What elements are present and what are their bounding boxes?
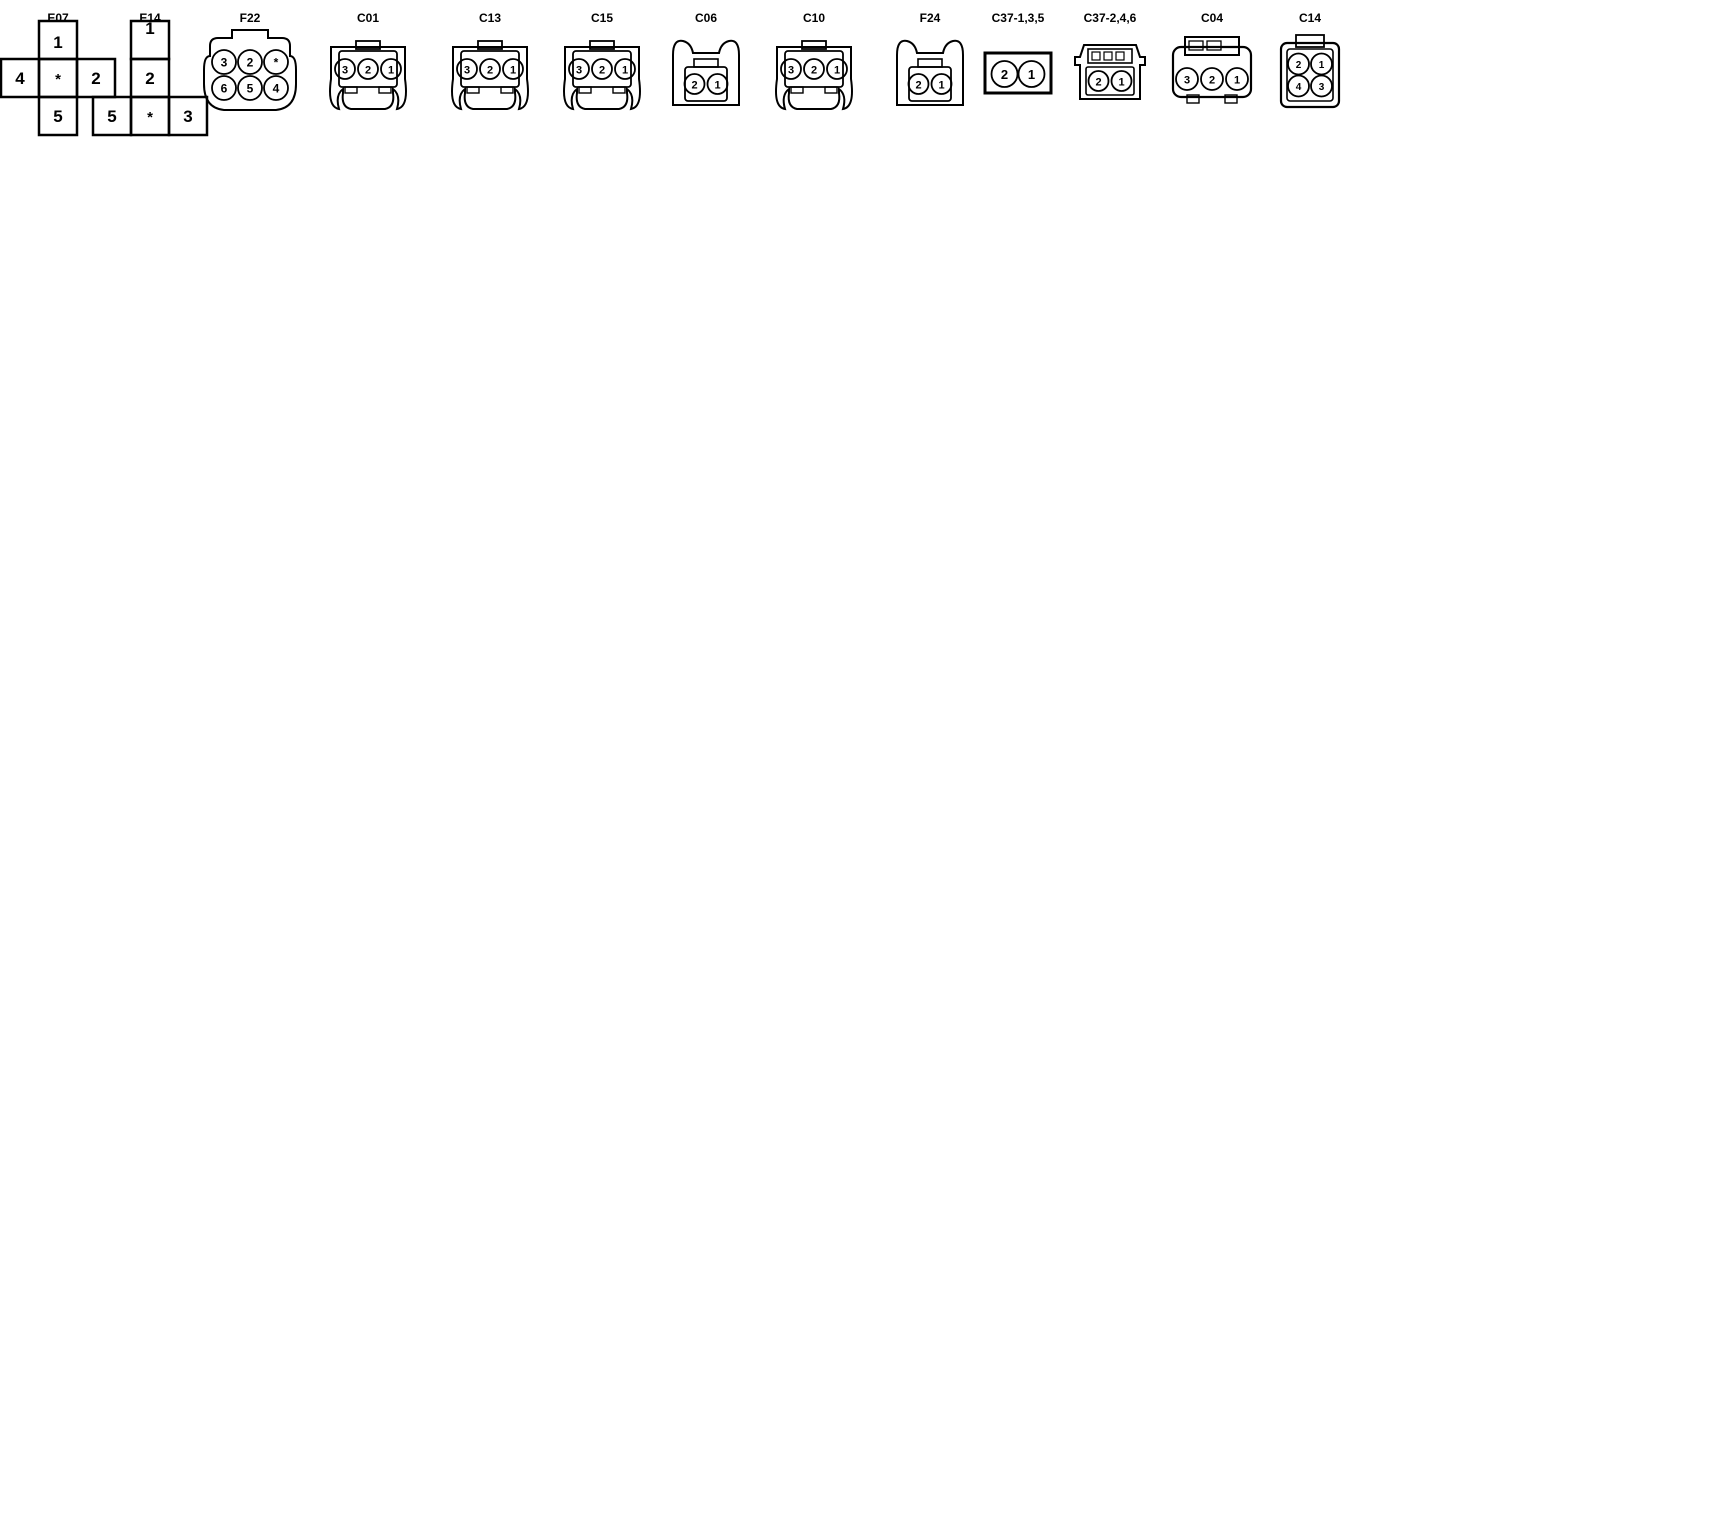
svg-text:C37-2,4,6: C37-2,4,6 xyxy=(1084,11,1137,25)
svg-text:2: 2 xyxy=(365,65,371,77)
svg-text:1: 1 xyxy=(145,19,154,38)
svg-text:2: 2 xyxy=(1209,75,1215,87)
svg-text:4: 4 xyxy=(1296,82,1302,93)
svg-text:*: * xyxy=(55,71,61,88)
svg-text:3: 3 xyxy=(576,65,582,77)
svg-text:1: 1 xyxy=(834,65,840,77)
svg-text:5: 5 xyxy=(247,82,254,96)
svg-text:1: 1 xyxy=(622,65,628,77)
svg-text:E07: E07 xyxy=(47,11,69,25)
svg-text:5: 5 xyxy=(107,107,116,126)
svg-text:C13: C13 xyxy=(479,11,501,25)
svg-text:2: 2 xyxy=(1095,77,1101,89)
svg-text:C01: C01 xyxy=(357,11,379,25)
svg-text:1: 1 xyxy=(510,65,516,77)
svg-text:2: 2 xyxy=(915,80,921,92)
svg-text:1: 1 xyxy=(938,80,944,92)
svg-text:*: * xyxy=(274,56,279,70)
svg-text:2: 2 xyxy=(599,65,605,77)
svg-text:2: 2 xyxy=(487,65,493,77)
svg-text:3: 3 xyxy=(788,65,794,77)
svg-text:4: 4 xyxy=(273,82,280,96)
svg-text:1: 1 xyxy=(1234,75,1240,87)
svg-text:2: 2 xyxy=(1296,60,1302,71)
svg-text:3: 3 xyxy=(464,65,470,77)
svg-text:C10: C10 xyxy=(803,11,825,25)
svg-text:C06: C06 xyxy=(695,11,717,25)
svg-text:1: 1 xyxy=(1028,67,1035,82)
svg-text:F24: F24 xyxy=(920,11,941,25)
svg-text:3: 3 xyxy=(221,56,228,70)
svg-text:1: 1 xyxy=(714,80,720,92)
svg-text:*: * xyxy=(147,109,153,126)
svg-text:3: 3 xyxy=(342,65,348,77)
svg-text:6: 6 xyxy=(221,82,228,96)
svg-text:1: 1 xyxy=(388,65,394,77)
svg-text:1: 1 xyxy=(1118,77,1124,89)
svg-text:3: 3 xyxy=(1319,82,1325,93)
svg-text:2: 2 xyxy=(247,56,254,70)
svg-text:2: 2 xyxy=(811,65,817,77)
svg-text:1: 1 xyxy=(1319,60,1325,71)
svg-text:2: 2 xyxy=(691,80,697,92)
svg-text:C14: C14 xyxy=(1299,11,1321,25)
svg-text:F22: F22 xyxy=(240,11,261,25)
svg-text:C37-1,3,5: C37-1,3,5 xyxy=(992,11,1045,25)
svg-text:2: 2 xyxy=(1001,67,1008,82)
svg-text:C15: C15 xyxy=(591,11,613,25)
svg-text:C04: C04 xyxy=(1201,11,1223,25)
svg-text:2: 2 xyxy=(145,69,154,88)
svg-text:2: 2 xyxy=(91,69,100,88)
svg-text:3: 3 xyxy=(183,107,192,126)
svg-text:1: 1 xyxy=(53,33,62,52)
svg-text:4: 4 xyxy=(15,69,25,88)
svg-text:3: 3 xyxy=(1184,75,1190,87)
svg-text:5: 5 xyxy=(53,107,62,126)
